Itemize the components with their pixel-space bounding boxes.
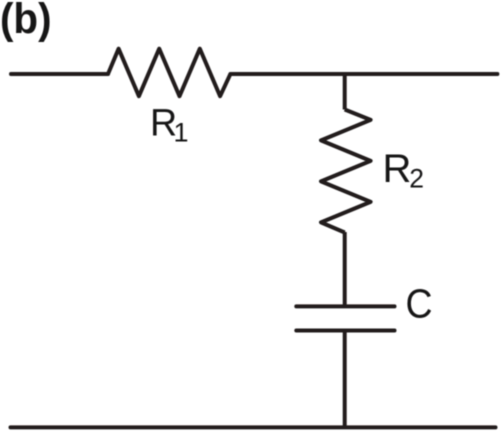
svg-text:C: C	[406, 281, 433, 327]
svg-text:1: 1	[174, 118, 189, 148]
svg-text:(b): (b)	[0, 0, 52, 43]
svg-text:2: 2	[409, 164, 424, 194]
svg-text:R: R	[383, 147, 412, 191]
